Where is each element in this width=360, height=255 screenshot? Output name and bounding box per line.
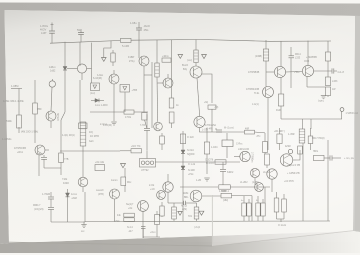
resistor R26 <box>219 185 270 189</box>
label C1 value <box>40 25 49 28</box>
resistor R50 <box>245 128 266 137</box>
svg-text:1xBxx: 1xBxx <box>49 66 56 69</box>
label Q2 right <box>97 75 104 77</box>
wire output bus <box>281 111 342 119</box>
svg-text:F1BP: F1BP <box>128 56 135 59</box>
svg-text:N@RD: N@RD <box>187 154 195 156</box>
svg-text:1/TRMJxx: 1/TRMJxx <box>251 152 253 163</box>
resistor R45 <box>298 146 303 154</box>
transistor Q10 <box>263 87 274 129</box>
svg-text:UTT92: UTT92 <box>141 169 149 172</box>
boxed diode D2 <box>91 83 100 91</box>
label Q22b <box>184 197 189 199</box>
lower page brighter right half <box>212 155 353 246</box>
zener symbol Z4 <box>199 211 204 215</box>
resistor R28 <box>308 128 313 150</box>
label R15 <box>332 80 338 83</box>
svg-text:Ne(1)7: Ne(1)7 <box>126 203 134 206</box>
wire J2 down <box>82 146 84 177</box>
resistor R14 <box>325 52 330 61</box>
svg-text:77B: 77B <box>64 158 69 161</box>
label Q7 name <box>182 64 188 67</box>
svg-text:c1xxx: c1xxx <box>263 172 270 174</box>
label R44 <box>255 56 262 58</box>
transistor Q3 <box>46 111 56 128</box>
label G3 <box>196 179 201 182</box>
transistor Q2 <box>77 43 91 83</box>
label near R47 <box>187 60 192 62</box>
svg-text:-L8x8: -L8x8 <box>71 198 78 200</box>
svg-text:17Ok: 17Ok <box>114 221 120 223</box>
svg-text:(47B): (47B) <box>98 194 104 196</box>
svg-text:4O): 4O) <box>89 131 93 134</box>
resistor R4 (778k) <box>59 128 64 175</box>
label R19b <box>127 181 132 184</box>
svg-text:1/TRB44OB: 1/TRB44OB <box>246 88 260 91</box>
label D8c <box>188 174 194 176</box>
transistor Q19 <box>110 189 120 221</box>
resistor R40 <box>261 199 265 221</box>
svg-text:L4R/L1OR: L4R/L1OR <box>238 149 249 151</box>
svg-text:Lasxx9: Lasxx9 <box>96 190 104 192</box>
capacitor C2 <box>78 29 84 42</box>
svg-text:1-68u: 1-68u <box>130 21 137 25</box>
wire V+ rail left segment <box>50 41 120 44</box>
svg-text:C18B-1: C18B-1 <box>221 191 230 193</box>
capacitor C8 <box>144 114 150 146</box>
svg-text:-147: -147 <box>128 231 133 233</box>
resistor R24 <box>204 128 209 174</box>
label jack <box>144 24 151 28</box>
svg-text:46R: 46R <box>245 128 250 130</box>
label bl3 <box>34 209 44 211</box>
resistor R20 box <box>95 165 105 171</box>
resistor R18 <box>120 146 147 153</box>
label R37 <box>241 200 244 202</box>
label R18 <box>131 145 141 148</box>
ground G1 <box>111 122 116 125</box>
connector J3 (3-pin) <box>140 159 156 168</box>
label J2a <box>89 131 93 134</box>
svg-text:JACK: JACK <box>144 24 151 28</box>
wire Q11 to Q12 <box>286 71 303 74</box>
wire x265 drop <box>264 187 266 203</box>
svg-text:+Oxx: +Oxx <box>150 232 156 234</box>
svg-text:+TA+: +TA+ <box>294 71 300 74</box>
zener symbol Z1 <box>102 58 107 62</box>
svg-text:N-Ok4: N-Ok4 <box>187 150 194 152</box>
label D4 value <box>95 104 108 107</box>
svg-text:Z7A): Z7A) <box>129 60 135 63</box>
svg-text:4ZR2: 4ZR2 <box>285 146 291 148</box>
label R29 <box>313 151 318 153</box>
svg-text:1smm: 1smm <box>111 179 118 182</box>
svg-text:MRD-7: MRD-7 <box>33 205 41 207</box>
svg-text:+7B5: +7B5 <box>132 90 138 92</box>
wire left vertical x183 <box>182 131 184 221</box>
label D8b <box>188 170 195 172</box>
svg-text:(249B): (249B) <box>255 56 262 58</box>
svg-text:O 1m/w: O 1m/w <box>278 225 286 227</box>
transistor Q20 <box>138 201 149 238</box>
wire mid bus left <box>90 111 120 113</box>
label misc1 <box>240 182 248 184</box>
label R17 <box>276 109 281 112</box>
wire Q7 collector right <box>202 74 212 103</box>
wire lower-left node <box>44 167 61 169</box>
wire stub <box>280 219 282 222</box>
svg-text:7B9: 7B9 <box>37 108 42 111</box>
svg-text:1xxxx: 1xxxx <box>71 194 78 196</box>
label misc2 <box>252 182 259 184</box>
label Q14a <box>149 184 155 187</box>
svg-text:1/TR4A5A: 1/TR4A5A <box>205 124 216 127</box>
svg-text:built: built <box>89 140 94 143</box>
label R3 value <box>37 108 42 111</box>
label src <box>2 137 12 141</box>
label T2 <box>285 146 291 148</box>
wire bottom-left bus <box>51 221 85 223</box>
svg-text:C-1O76: C-1O76 <box>205 160 214 162</box>
label Q22a <box>183 192 189 195</box>
svg-text:L333: L333 <box>332 80 338 83</box>
transistor Q22 <box>190 190 221 202</box>
resistor R39 <box>256 196 260 221</box>
svg-text:1/TR5B3B: 1/TR5B3B <box>248 71 260 74</box>
label NPN1B vertical <box>56 113 58 121</box>
svg-text:F2R2: F2R2 <box>63 182 70 185</box>
label R19a <box>111 179 118 182</box>
component box U1 <box>222 140 233 147</box>
resistor R31 <box>124 218 135 222</box>
svg-text:L333: L333 <box>295 58 301 60</box>
svg-text:HRG: HRG <box>313 151 318 153</box>
svg-text:530k: 530k <box>6 119 12 123</box>
capacitor C12 <box>48 192 54 205</box>
wire x328 to bottom bus <box>327 158 329 221</box>
svg-text:+1N: +1N <box>150 188 155 191</box>
svg-text:1/TR5C6B: 1/TR5C6B <box>14 146 26 150</box>
label D2 <box>90 93 95 95</box>
svg-text:+1Rxx: +1Rxx <box>162 56 169 58</box>
resistor network RN1 <box>299 129 305 143</box>
resistor R7 <box>111 50 115 66</box>
svg-text:1-2R: 1-2R <box>196 179 201 182</box>
diode D7 <box>181 150 185 154</box>
svg-text:+C3 PO5: +C3 PO5 <box>284 181 294 183</box>
wire rail drop x196 <box>195 40 197 51</box>
svg-text:+P1k: +P1k <box>188 174 194 176</box>
boxed diode D3 <box>120 85 130 93</box>
wire x266 lower <box>267 128 269 150</box>
svg-text:1-76kM: 1-76kM <box>42 193 50 196</box>
resistor R27 <box>277 128 282 150</box>
svg-text:(48( 33O-1 96k(: (48( 33O-1 96k( <box>21 131 38 134</box>
svg-text:4O MTR: 4O MTR <box>90 135 99 138</box>
top grey margin band <box>0 3 360 17</box>
wire x252 drop <box>251 196 253 221</box>
label Q13b <box>63 182 70 185</box>
label R24 <box>211 146 218 149</box>
zener symbol Z3 <box>121 164 126 168</box>
label Q15 <box>238 149 249 151</box>
label R20 <box>95 161 105 164</box>
svg-text:64R/2: 64R/2 <box>227 171 234 174</box>
label C7b <box>295 58 301 60</box>
transistor Q6 <box>158 74 174 88</box>
page fold crease <box>211 195 214 244</box>
svg-text:2-Ok: 2-Ok <box>149 184 155 187</box>
label C14b <box>128 231 133 233</box>
label C8 <box>140 125 145 127</box>
transistor Q24 <box>154 122 163 131</box>
ground G2 <box>321 96 326 99</box>
wire q17 to node <box>296 150 300 160</box>
label R10 <box>176 104 179 107</box>
label C14a <box>127 227 133 229</box>
label JA <box>252 103 259 106</box>
svg-text:56u: 56u <box>77 29 82 32</box>
resistor R41 <box>274 192 279 219</box>
svg-text:1-45R: 1-45R <box>288 133 295 136</box>
wire G4 stem <box>83 222 85 225</box>
transistor Q23 <box>255 183 264 192</box>
label D7b <box>187 154 195 156</box>
wire to Z1 <box>104 41 111 58</box>
label Q14b <box>150 188 155 191</box>
label Q4 name <box>93 77 102 80</box>
label R2 value <box>6 119 12 123</box>
transistor Q16 <box>250 168 259 185</box>
label C7a <box>295 54 301 56</box>
resistor R1 (in rail) <box>121 38 201 42</box>
resistor R19 <box>121 168 126 192</box>
label Q13a <box>62 178 68 181</box>
resistor R30 <box>124 213 135 217</box>
bottom grey margin <box>0 231 360 253</box>
page bottom edge shadow line <box>9 242 212 246</box>
svg-text:C-Rxx: C-Rxx <box>236 144 243 146</box>
label J2b <box>89 140 94 143</box>
svg-text:+ Tpxx R PB: + Tpxx R PB <box>287 165 301 167</box>
transistor Q1 (input) <box>35 145 49 176</box>
wire drop x311 <box>310 119 312 129</box>
svg-text:1xB2: 1xB2 <box>50 71 56 73</box>
label R11 <box>17 151 23 154</box>
capacitor C14 <box>141 227 146 239</box>
svg-text:TL9L: TL9L <box>254 93 260 95</box>
wire center-left vertical <box>151 62 153 128</box>
label C9 <box>202 130 208 132</box>
svg-text:7-7R: 7-7R <box>140 125 145 127</box>
svg-text:(1/4)(1/4): (1/4)(1/4) <box>34 209 44 211</box>
label Q2 area2 <box>50 71 56 73</box>
wire bus y187 left <box>180 186 218 188</box>
svg-text:11Bk: 11Bk <box>183 192 189 195</box>
svg-text:MR-4: MR-4 <box>295 54 301 56</box>
label T1 <box>346 113 359 115</box>
terminal T2 <box>288 149 292 153</box>
label C4 <box>36 153 42 156</box>
transistor Q18 <box>267 169 277 192</box>
svg-text:1-1R4: 1-1R4 <box>211 146 218 149</box>
label C10 <box>227 171 234 174</box>
capacitor C11 (output) <box>330 155 341 160</box>
label bl1 <box>42 193 50 196</box>
label R35 <box>188 216 192 218</box>
label 45G <box>144 28 149 32</box>
wire x303 drop <box>302 143 304 221</box>
resistor R37 <box>242 196 246 221</box>
wire left column lower <box>79 80 81 123</box>
wire C9 to U1 <box>226 133 228 140</box>
wire x266 mid <box>265 61 267 87</box>
svg-text:N-4.4: N-4.4 <box>127 227 133 229</box>
resistor R48 <box>142 113 147 129</box>
svg-text:N(T)3: N(T)3 <box>181 206 188 208</box>
capacitor C7 <box>289 47 295 88</box>
transistor Q13 <box>78 177 88 192</box>
svg-text:+NO 77k: +NO 77k <box>131 145 141 148</box>
svg-text:716k: 716k <box>62 178 68 181</box>
svg-text:1-1O(M): 1-1O(M) <box>103 125 112 127</box>
svg-text:143T: 143T <box>41 32 47 35</box>
resistor R22 <box>215 160 226 164</box>
resistor R38 <box>247 199 251 221</box>
label bias row <box>3 99 24 103</box>
label U1 <box>236 144 243 146</box>
svg-text:O 1-4k: O 1-4k <box>188 164 196 166</box>
label R16 <box>332 89 336 91</box>
capacitor C4 <box>41 155 47 168</box>
svg-text:A(M): A(M) <box>182 208 187 211</box>
right grey margin <box>353 16 360 232</box>
capacitor C10 <box>220 162 226 185</box>
resistor R2 (530k input) <box>17 89 22 134</box>
connector J2 (multi-pin) <box>80 122 86 146</box>
diode D8 <box>181 166 185 170</box>
label R23 <box>187 137 194 139</box>
svg-text:+ nm, pw: + nm, pw <box>344 157 354 160</box>
transistor Q21 <box>157 191 166 200</box>
label C1 part <box>41 32 47 35</box>
label Q11 name <box>248 71 260 74</box>
label D7a <box>187 150 194 152</box>
wire Q5 to x152 <box>144 74 152 76</box>
capacitor C13 <box>48 205 54 222</box>
power arrow symbol A2 <box>202 55 207 59</box>
label bm <box>278 225 286 227</box>
capacitor C6 (coupling) <box>332 68 337 73</box>
label R22b <box>206 163 214 165</box>
label topc <box>224 128 234 130</box>
svg-text:N-34R: N-34R <box>188 170 195 172</box>
wire U1 down <box>226 147 228 159</box>
label outtext <box>312 138 325 140</box>
svg-text:c1-2R2: c1-2R2 <box>240 182 248 184</box>
svg-text:+ GPMF-PB: + GPMF-PB <box>287 173 300 175</box>
label Q12 name <box>294 71 300 74</box>
label Q5 name2 <box>129 60 135 63</box>
wire pair join <box>277 218 285 220</box>
resistor R6 <box>18 127 20 128</box>
resistor R17 <box>278 78 283 119</box>
svg-text:6-16(M): 6-16(M) <box>93 77 102 80</box>
svg-text:CxL.8: CxL.8 <box>338 71 345 74</box>
svg-text:[18k]: [18k] <box>223 200 228 202</box>
label oob <box>304 61 310 63</box>
label R22a <box>205 160 214 162</box>
label R31 <box>114 221 120 223</box>
wire center bus y162 <box>155 161 240 163</box>
diode D4 <box>91 99 104 103</box>
svg-text:+R11: +R11 <box>17 151 23 154</box>
label top right <box>306 56 317 59</box>
wire D3 to bus <box>124 92 126 112</box>
capacitor C9 <box>216 128 222 132</box>
label TR vertical <box>251 152 253 163</box>
svg-text:1-08M: 1-08M <box>11 84 18 88</box>
svg-text:1-10M/s: 1-10M/s <box>2 137 12 141</box>
label Q20b <box>128 208 133 210</box>
label G2 <box>318 101 324 103</box>
label C2 value <box>77 29 82 32</box>
label C3 value <box>130 21 137 25</box>
label R12 <box>214 107 218 109</box>
label q18b <box>284 181 294 183</box>
label R30 <box>117 215 122 217</box>
label row y130 <box>21 131 38 134</box>
label left of J2 <box>62 135 75 137</box>
capacitor C3 (rail bypass) <box>136 22 142 40</box>
svg-text:(-gm.): (-gm.) <box>318 101 324 103</box>
svg-text:+Ok 44k: +Ok 44k <box>95 161 105 164</box>
label R36a <box>221 191 230 193</box>
transistor Q11 <box>266 66 286 77</box>
svg-text:BRL: BRL <box>184 197 189 199</box>
label G4 <box>81 231 85 233</box>
resistor R35 ladder <box>194 203 199 221</box>
svg-text:BxxO: BxxO <box>182 64 188 67</box>
resistor R23 box <box>180 134 185 144</box>
label R39 <box>256 200 259 202</box>
svg-text:OOB: OOB <box>304 61 310 63</box>
label Q2 area <box>49 66 56 69</box>
svg-text:1xxx 1-4RO: 1xxx 1-4RO <box>95 104 108 107</box>
label D8a <box>188 164 196 166</box>
resistor R16 <box>325 87 330 97</box>
transistor Q7 <box>190 63 202 115</box>
resistor R8 (170k) <box>120 110 148 114</box>
resistor R42 <box>282 194 287 219</box>
svg-text:L-O3,: L-O3, <box>202 130 208 132</box>
label D9a <box>71 194 78 196</box>
resistor R33 <box>160 202 164 217</box>
wire Q8 node to R50 <box>200 128 245 132</box>
svg-text:NPN1B: NPN1B <box>56 113 58 121</box>
resistor R36 (feedback) <box>221 193 252 198</box>
wire x85 drop <box>84 192 86 222</box>
label ladder <box>288 133 295 136</box>
label C1 voltage <box>40 29 47 32</box>
svg-text:17Ok: 17Ok <box>125 116 132 119</box>
svg-text:45G: 45G <box>144 28 149 32</box>
wire bottom bus <box>85 220 330 223</box>
label D3 <box>132 90 138 92</box>
label q17t <box>287 165 301 167</box>
label above <box>103 125 112 127</box>
label R8 value <box>125 116 132 119</box>
